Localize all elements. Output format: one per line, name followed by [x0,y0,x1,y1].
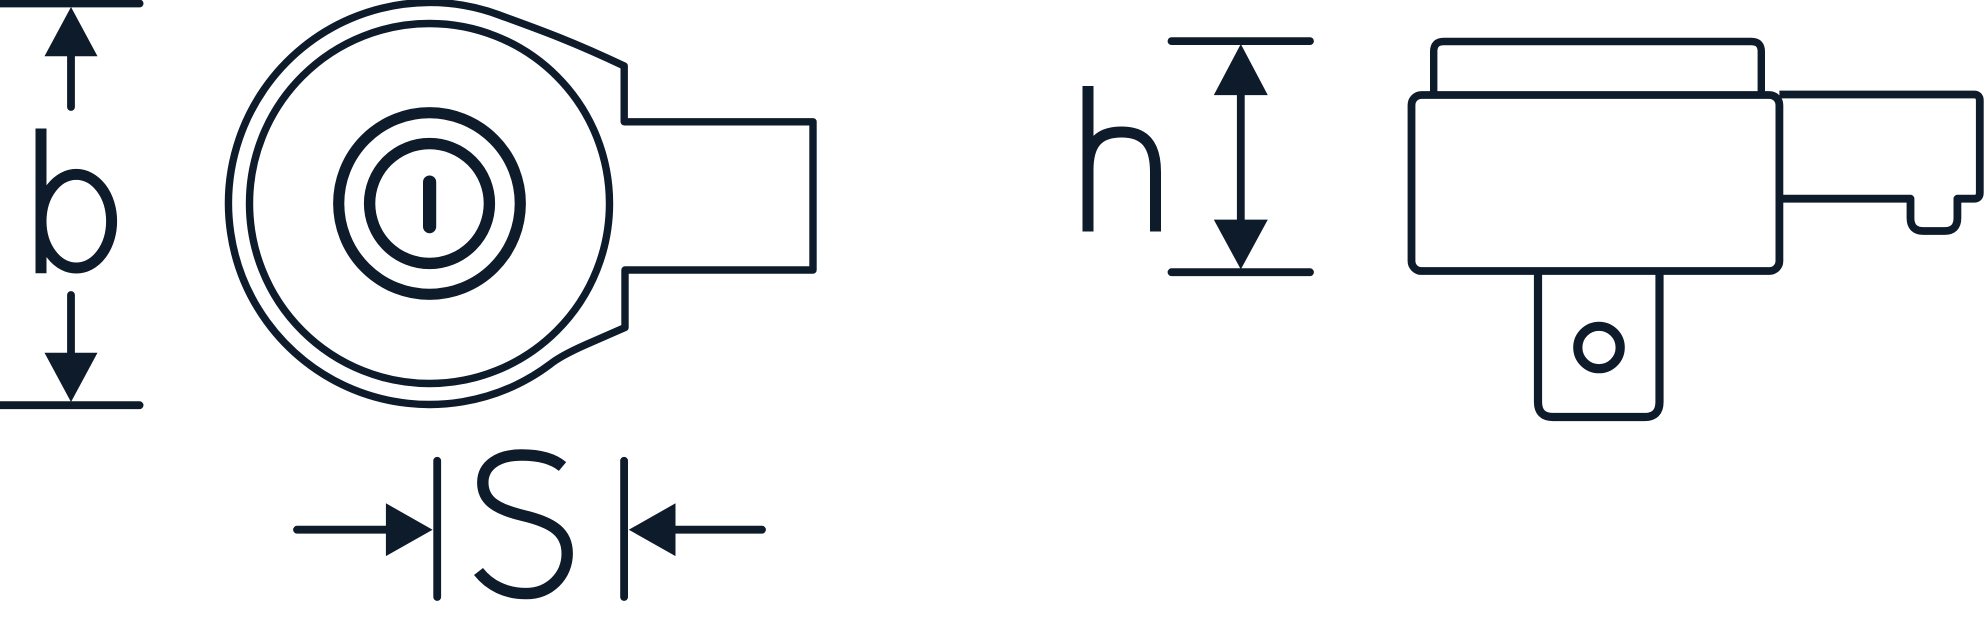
side view: main body [1412,95,1780,271]
dimension h: down arrowhead [1214,220,1268,270]
ratchet head: middle circle [339,113,521,295]
label h [1088,86,1156,232]
ratchet head: inner circle [370,144,490,264]
dimension h: top extension line [1172,37,1311,45]
dimension b: top extension line [0,0,140,7]
ratchet head: chamfer ring [250,24,610,384]
ratchet head: center slot [423,176,436,234]
dimension h: up arrowhead [1214,44,1268,95]
side view: top cap [1434,42,1762,99]
dimension b: down arrow stem [67,295,75,355]
ratchet head front view: outer outline with tang [229,2,813,404]
side view: right arm with drive peg [1779,95,1979,232]
dimension b: up arrowhead [45,7,98,56]
dimension S: left arrowhead (points right) [386,503,433,556]
dimension b: up arrow stem [67,54,75,107]
dimension h: arrow stem [1237,93,1245,222]
side view: square drive [1538,271,1660,417]
label S [479,455,568,594]
label b [41,129,112,274]
dimension S: left line [297,526,390,534]
dimension S: right arrowhead (points left) [629,503,676,556]
dimension b: bottom extension line [0,401,140,409]
dimension S: left tick [433,461,441,597]
dimension S: right tick [620,461,628,597]
dimension S: right line [676,526,763,534]
side view: drive hole [1578,326,1620,368]
dimension h: bottom extension line [1172,268,1311,276]
dimension b: down arrowhead [45,353,98,402]
